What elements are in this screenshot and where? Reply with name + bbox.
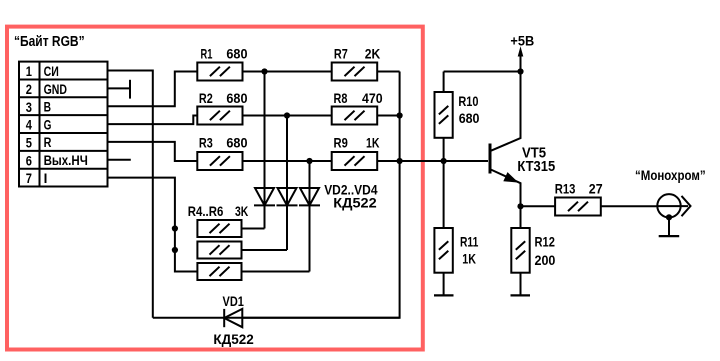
svg-text:7: 7 (26, 171, 32, 186)
svg-text:“Монохром”: “Монохром” (635, 167, 706, 183)
mixing bus vertical + to VD1 (243, 72, 400, 318)
red frame (7, 27, 423, 350)
svg-text:R11: R11 (460, 234, 478, 250)
wire pin6 Вых.НЧ stub (108, 159, 131, 161)
wire pin1 СИ to VD1 (108, 71, 153, 318)
svg-text:R10: R10 (458, 93, 478, 109)
diode VD4 (299, 161, 320, 272)
junction R3-R9-VD4 (306, 158, 312, 164)
svg-text:3: 3 (26, 100, 33, 115)
svg-text:4: 4 (26, 118, 33, 133)
svg-text:2: 2 (26, 82, 32, 97)
wire R8 to bus (377, 115, 399, 117)
resistor R6 (197, 263, 309, 280)
junction R2-R8-VD3 (284, 112, 290, 118)
resistor R4 (197, 220, 264, 237)
resistor R8 (332, 107, 378, 125)
wire emitter to R13 (521, 205, 556, 207)
+5B power arrow (518, 46, 524, 71)
svg-text:КД522: КД522 (213, 331, 254, 347)
svg-text:+5В: +5В (510, 32, 534, 48)
wire output to ground (668, 217, 670, 236)
svg-text:“Байт RGB”: “Байт RGB” (14, 34, 85, 50)
resistor R9 (332, 152, 378, 170)
junction emitter-R12-R13 (517, 203, 523, 209)
svg-text:R12: R12 (535, 233, 556, 249)
resistor R11 (434, 161, 452, 295)
svg-text:1: 1 (26, 64, 33, 79)
svg-text:GND: GND (44, 82, 68, 97)
connector table X1 (19, 62, 108, 187)
svg-text:VD1: VD1 (223, 293, 245, 309)
diode VD3 (277, 116, 298, 251)
svg-text:СИ: СИ (44, 64, 59, 79)
svg-text:G: G (44, 117, 52, 132)
wire R7 to bus (377, 71, 399, 73)
resistor R12 (511, 206, 529, 295)
junction R1-R7-VD2 (261, 68, 267, 74)
wire R13 to output (601, 205, 658, 207)
junction R10-R11-base (441, 158, 447, 164)
svg-text:Вых.НЧ: Вых.НЧ (44, 153, 88, 168)
output connector "Монохром" (657, 194, 690, 217)
wire pin3 B to R1 (108, 72, 198, 107)
resistor R7 (332, 63, 378, 81)
wire R9 to bus (377, 160, 399, 162)
resistor R1 (197, 63, 242, 81)
resistor R5 (197, 242, 287, 259)
resistor R13 (555, 198, 601, 216)
wire pin7 I to R4..R6 (108, 178, 198, 272)
wire R1 to R7 (243, 71, 332, 73)
svg-text:200: 200 (535, 252, 556, 268)
wire pin2 GND stub (108, 87, 131, 89)
svg-text:КТ315: КТ315 (517, 158, 555, 175)
svg-text:I: I (44, 171, 48, 186)
wire +5B rail to R10 (444, 71, 521, 73)
ground under output (659, 235, 680, 237)
svg-text:R: R (44, 135, 52, 150)
resistor R10 (435, 72, 453, 162)
svg-text:R4..R63K: R4..R63K (188, 203, 249, 219)
svg-text:6: 6 (26, 153, 33, 168)
junction I-R5 (172, 247, 178, 253)
transistor VT5 (490, 72, 521, 207)
junction I-R4 (172, 225, 178, 231)
svg-text:680: 680 (459, 110, 480, 126)
svg-text:КД522: КД522 (333, 194, 377, 210)
junction output-ground (666, 214, 672, 220)
svg-text:1K: 1K (462, 250, 476, 266)
ground under R11 (434, 294, 454, 296)
resistor R3 (197, 152, 242, 170)
GND terminator bar (129, 80, 131, 99)
diode VD2 (254, 72, 275, 229)
junction bus-R9 node base (397, 158, 403, 164)
junction +5B rail collector (517, 68, 523, 74)
wire R2 to R8 (243, 115, 332, 117)
svg-text:5: 5 (26, 136, 33, 151)
resistor R2 (197, 107, 242, 125)
wire pin5 R to R3 (108, 142, 198, 161)
junction bus-R8 (397, 112, 403, 118)
ground under R12 (511, 294, 531, 296)
wire base from R9 junction (400, 160, 488, 162)
diode VD1 (153, 309, 400, 327)
wire pin4 G to R2 (108, 116, 198, 125)
svg-text:B: B (44, 100, 52, 115)
wire R3 to R9 (243, 160, 332, 162)
